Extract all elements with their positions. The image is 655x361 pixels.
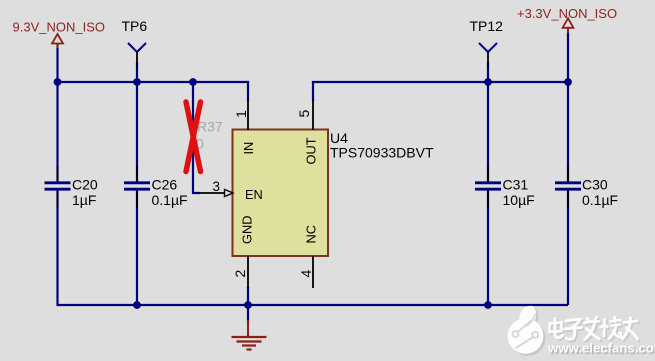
svg-text:OUT: OUT: [304, 137, 319, 164]
svg-text:IN: IN: [241, 142, 256, 155]
watermark text www.elecfans.com: [547, 341, 655, 356]
svg-text:0.1µF: 0.1µF: [582, 192, 618, 208]
wire TP6 branch / C26 vertical: [136, 62, 138, 305]
junction bottom C26: [133, 301, 141, 309]
U4 pin 1 (IN): [233, 100, 256, 155]
junction at TP6: [133, 78, 141, 86]
capacitor C26: [124, 166, 188, 208]
ground: [232, 305, 267, 350]
svg-text:TP6: TP6: [122, 18, 148, 34]
svg-text:NC: NC: [304, 225, 319, 243]
svg-text:1: 1: [233, 110, 249, 118]
svg-text:10µF: 10µF: [503, 192, 535, 208]
svg-text:C20: C20: [72, 177, 98, 193]
svg-text:C26: C26: [152, 177, 178, 193]
red X (DNP mark over R37): [186, 102, 201, 172]
junction at R37: [189, 78, 197, 86]
svg-text:C31: C31: [503, 177, 529, 193]
junction at TP12: [484, 78, 492, 86]
U4 pin 4 (NC): [298, 225, 319, 288]
wire right vertical to C30 (+3.3V stem): [567, 32, 569, 305]
U4 pin 3 (EN) with input arrow: [199, 179, 263, 202]
power port 9.3V_NON_ISO: [13, 20, 106, 83]
wire TP12 branch / C31 vertical: [487, 62, 489, 305]
svg-text:TPS70933DBVT: TPS70933DBVT: [330, 145, 434, 161]
junction bottom C31: [484, 301, 492, 309]
U4 pin 2 (GND): [232, 216, 255, 288]
svg-text:R37: R37: [197, 119, 223, 135]
watermark logo elecfans: [508, 306, 546, 356]
U4 pin 5 (OUT): [296, 100, 319, 165]
svg-text:0.1µF: 0.1µF: [152, 192, 188, 208]
wire top-right horizontal (net +3.3V_NON_ISO): [312, 81, 568, 83]
svg-text:4: 4: [298, 270, 314, 278]
wire R37 branch to EN pin: [193, 82, 200, 193]
svg-text:9.3V_NON_ISO: 9.3V_NON_ISO: [13, 20, 106, 35]
capacitor C31: [475, 166, 535, 208]
svg-text:C30: C30: [582, 177, 608, 193]
svg-text:3: 3: [213, 179, 221, 194]
power port +3.3V_NON_ISO: [517, 6, 617, 33]
svg-text:www.elecfans.com: www.elecfans.com: [547, 341, 655, 356]
capacitor C20: [45, 166, 98, 208]
wire pin5 rise (OUT): [312, 81, 314, 101]
svg-text:2: 2: [232, 270, 248, 278]
svg-text:5: 5: [296, 110, 312, 118]
wire left vertical branch to C20: [56, 82, 58, 305]
svg-text:EN: EN: [245, 187, 263, 202]
capacitor C30: [555, 166, 618, 208]
resistor R37 (not populated, value 0): [196, 119, 223, 152]
svg-text:GND: GND: [240, 216, 255, 244]
svg-text:1µF: 1µF: [72, 192, 96, 208]
svg-text:TP12: TP12: [470, 18, 504, 34]
wire bottom horizontal (ground net): [57, 304, 569, 306]
junction bottom ground: [244, 301, 252, 309]
IC U4 TPS70933DBVT (LDO regulator): [233, 130, 434, 257]
wire top-left horizontal (net 9.3V_NON_ISO): [57, 81, 249, 83]
test point TP6: [122, 18, 148, 67]
test point TP12: [470, 18, 504, 67]
wire GND pin2 to ground net: [247, 287, 249, 305]
junction at 9.3V stem: [54, 78, 62, 86]
junction at +3.3V stem: [564, 78, 572, 86]
wire pin1 drop (IN): [247, 81, 249, 101]
